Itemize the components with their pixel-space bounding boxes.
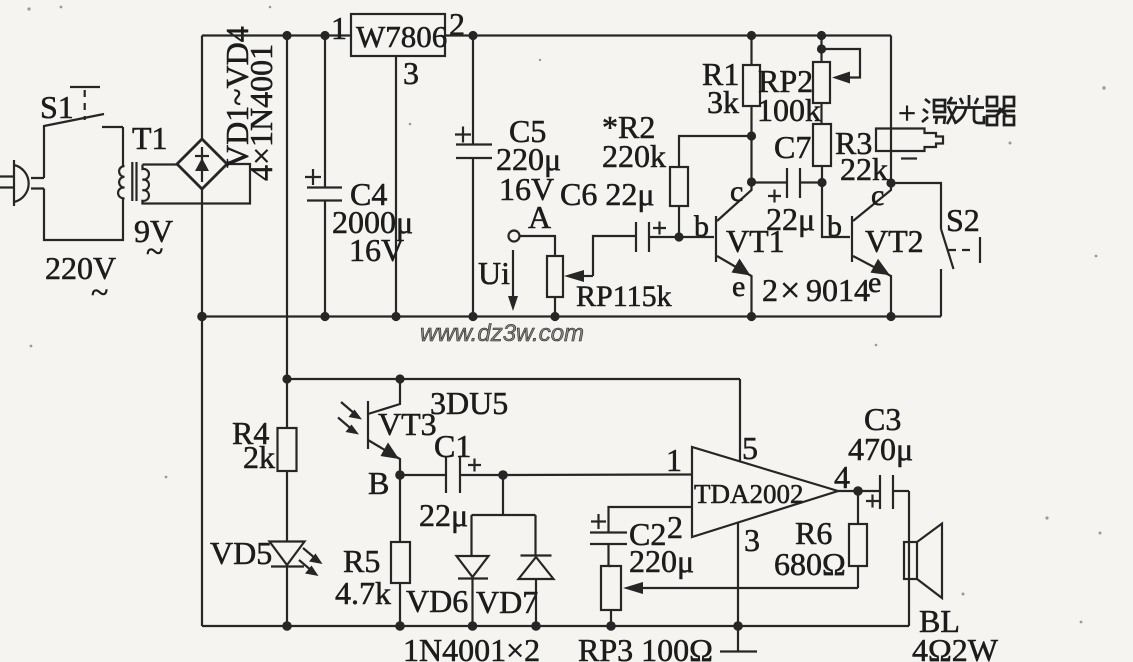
svg-text:b: b — [827, 210, 842, 243]
wire laser drop — [890, 36, 892, 184]
wire top rail left — [202, 34, 351, 36]
laser device body — [876, 129, 943, 152]
svg-text:C1: C1 — [434, 428, 471, 464]
potentiometer RP1 — [547, 256, 563, 317]
LED VD5 — [270, 542, 323, 627]
激 — [922, 99, 930, 122]
node dot 286-379 — [282, 374, 291, 383]
svg-text:3: 3 — [744, 522, 760, 558]
svg-text:22μ: 22μ — [419, 497, 468, 533]
svg-text:220μ: 220μ — [629, 543, 694, 579]
node dot bottom-R5 — [395, 621, 405, 631]
svg-text:2: 2 — [667, 509, 683, 545]
diode VD7 — [519, 515, 554, 626]
node dot rail-RP2 — [817, 31, 826, 40]
wire R3 junction to VT2 base — [822, 183, 850, 238]
node dot RP2 wiper tie — [817, 44, 826, 53]
svg-text:680Ω: 680Ω — [774, 546, 846, 582]
wire primary loop left — [44, 125, 123, 240]
svg-text:1: 1 — [666, 442, 682, 478]
capacitor C6 — [636, 222, 679, 253]
node dot bottom-VD6 — [468, 621, 478, 631]
resistor R4 — [278, 379, 297, 541]
wire +12V drop x286 — [286, 36, 288, 380]
node dot rail-R1 — [747, 31, 756, 40]
pin 5 wire — [739, 379, 741, 461]
svg-text:TDA2002: TDA2002 — [694, 479, 804, 509]
svg-text:VT3: VT3 — [378, 406, 437, 442]
node dot laser-collector — [886, 178, 895, 187]
svg-text:4.7k: 4.7k — [335, 575, 391, 611]
svg-text:1N4001×2: 1N4001×2 — [403, 632, 540, 662]
svg-text:S2: S2 — [946, 202, 980, 238]
phototransistor VT3 — [338, 379, 400, 475]
svg-text:e: e — [732, 270, 745, 303]
svg-text:RP3 100Ω: RP3 100Ω — [578, 632, 713, 662]
svg-text:2: 2 — [762, 272, 778, 308]
node dot mid-202 — [197, 312, 207, 322]
wire collector node to S2 — [891, 183, 941, 229]
svg-text:c: c — [730, 175, 743, 208]
mid rail wire — [202, 315, 941, 317]
capacitor C2 — [590, 514, 627, 566]
node dot bottom-RP3 — [606, 621, 616, 631]
resistor R2 — [670, 136, 752, 237]
diode VD6 — [457, 515, 489, 626]
svg-text:16V: 16V — [349, 232, 404, 268]
label 激光器 (laser device, drawn glyphs) — [922, 95, 1015, 125]
node dot VT3 collector feed — [395, 374, 404, 383]
svg-text:3k: 3k — [707, 84, 739, 120]
pin 2 wire — [609, 507, 693, 533]
wire bridge top to +rail — [201, 36, 203, 140]
node dot bottom-VD7 — [531, 621, 541, 631]
wire bridge bottom down left drop — [201, 189, 203, 626]
svg-text:b: b — [694, 210, 709, 243]
node dot mid-C4 — [320, 312, 329, 321]
potentiometer RP2 — [813, 36, 860, 104]
resistor R5 — [391, 475, 410, 626]
node dot C7-R3 junction — [817, 178, 826, 187]
svg-text:c: c — [871, 179, 884, 212]
switch S2 — [941, 229, 980, 317]
node dot bottom-gnd — [733, 621, 743, 631]
node dot C1 out — [498, 470, 508, 480]
op-amp U2 TDA2002 — [692, 447, 838, 537]
node A terminal — [509, 231, 520, 242]
mains plug P1 — [0, 160, 29, 206]
node dot mid-pin3 — [391, 312, 400, 321]
svg-text:Ui: Ui — [478, 255, 510, 291]
resistor R6 — [849, 491, 867, 588]
svg-text:VT2: VT2 — [865, 223, 924, 259]
svg-text:×: × — [780, 270, 800, 310]
svg-text:T1: T1 — [132, 120, 168, 156]
node dot rail-C5 — [468, 31, 477, 40]
svg-text:9014: 9014 — [806, 272, 870, 308]
svg-text:VD6: VD6 — [406, 583, 468, 619]
wire S1 to transformer primary — [122, 127, 124, 166]
node dot base VT1 — [674, 232, 683, 241]
transformer T1 — [118, 162, 149, 204]
wire clip network stem — [472, 475, 536, 515]
wire feed line y379 — [287, 378, 740, 380]
光 — [960, 95, 978, 106]
node dot R1 bottom — [747, 131, 756, 140]
svg-text:470μ: 470μ — [848, 431, 913, 467]
switch S1 — [44, 87, 123, 127]
svg-text:VD7: VD7 — [476, 584, 538, 620]
svg-text:100k: 100k — [757, 92, 821, 128]
svg-text:+: + — [898, 95, 916, 131]
svg-text:220k: 220k — [602, 138, 666, 174]
capacitor C7 — [752, 168, 824, 203]
capacitor C1 — [400, 457, 503, 493]
器 — [987, 97, 1014, 106]
node dot mid-C5 — [468, 312, 477, 321]
pin 4 node — [838, 490, 858, 492]
wire top rail right — [445, 34, 891, 36]
node dot VT1 collector — [747, 177, 756, 186]
node dot mid-VT2e — [886, 312, 895, 321]
wire secondary bottom loop to bridge right — [143, 164, 251, 204]
svg-text:R5: R5 — [343, 543, 380, 579]
node dot mid-RP1 — [550, 312, 559, 321]
transistor VT1 — [679, 182, 752, 317]
node dot rail-286 — [282, 31, 291, 40]
svg-text:3: 3 — [403, 55, 419, 91]
svg-text:www.dz3w.com: www.dz3w.com — [420, 320, 584, 347]
RP1 wiper arrow — [564, 236, 636, 282]
svg-text:2k: 2k — [243, 439, 275, 475]
transistor VT2 — [852, 183, 891, 317]
pin 3 wire — [737, 523, 739, 627]
svg-text:4×1N4001: 4×1N4001 — [243, 44, 279, 181]
svg-text:1: 1 — [331, 10, 347, 46]
capacitor C4 — [305, 36, 342, 318]
svg-text:VD5: VD5 — [210, 535, 272, 571]
svg-text:4Ω2W: 4Ω2W — [912, 632, 999, 662]
svg-text:~: ~ — [91, 274, 108, 310]
bottom rail wire — [202, 625, 909, 627]
speaker BL — [904, 524, 942, 599]
svg-text:C7: C7 — [774, 129, 811, 165]
node dot rail-C4 — [320, 31, 329, 40]
wire regulator pin3 to mid rail — [395, 56, 397, 317]
label - for laser — [901, 157, 917, 159]
svg-text:22μ: 22μ — [766, 201, 815, 237]
resistor R3 — [813, 103, 831, 183]
resistor R1 — [743, 36, 760, 183]
wire secondary top to bridge — [143, 163, 179, 165]
wire plug to S1 loop — [31, 178, 44, 189]
potentiometer RP3 — [601, 566, 858, 626]
wire node A to RP1 — [520, 236, 556, 256]
wire C3 to speaker — [908, 491, 910, 626]
svg-text:RP115k: RP115k — [576, 280, 672, 313]
svg-text:3DU5: 3DU5 — [430, 385, 508, 421]
svg-text:A: A — [528, 199, 551, 235]
node dot mid-VT1e — [747, 312, 756, 321]
bridge rectifier VD1~VD4 — [177, 139, 227, 189]
ground — [720, 627, 757, 652]
node B — [395, 470, 405, 480]
node dot bottom-VD5 — [282, 621, 292, 631]
svg-text:B: B — [368, 465, 389, 501]
wire C1 to pin1 — [503, 473, 692, 476]
svg-text:S1: S1 — [40, 89, 74, 125]
svg-text:W7806: W7806 — [356, 19, 447, 54]
capacitor C5 — [455, 36, 492, 318]
capacitor C3 — [858, 475, 909, 509]
regulator U1 W7806 — [351, 14, 445, 56]
svg-text:C6 22μ: C6 22μ — [560, 176, 655, 212]
svg-text:5: 5 — [742, 430, 758, 466]
svg-text:~: ~ — [146, 233, 163, 269]
